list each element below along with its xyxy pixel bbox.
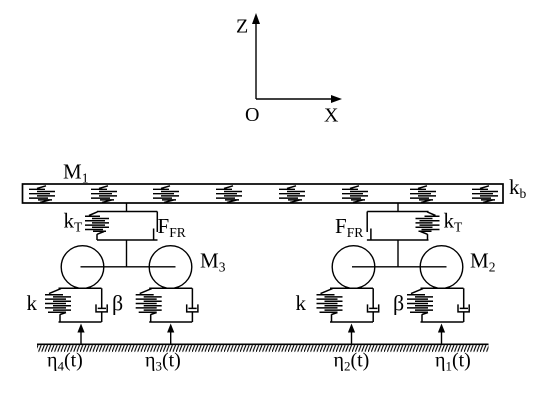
axle line [81, 266, 176, 268]
beam internal springs kb x8 [29, 186, 498, 203]
X axis arrowhead [331, 95, 342, 103]
primary spring k (w4) [45, 289, 71, 323]
secondary damper FFR cup [370, 229, 372, 241]
svg-text:k: k [296, 291, 307, 315]
svg-text:Z: Z [236, 16, 248, 38]
coordinate axes [256, 20, 335, 99]
beam M1 (rail/bridge body) [23, 184, 504, 203]
secondary suspension frame (top+bottom bars) [367, 212, 429, 241]
wheel 3 [149, 246, 192, 289]
svg-text:η3(t): η3(t) [145, 350, 181, 374]
svg-text:kT: kT [444, 209, 464, 235]
svg-text:kT: kT [64, 209, 84, 235]
excitation arrow 2 [351, 331, 353, 345]
wheel 4 [61, 246, 104, 289]
secondary spring kT [416, 212, 440, 240]
axle line right [352, 266, 447, 268]
secondary spring kT [85, 212, 109, 240]
X axis line [256, 98, 335, 100]
svg-text:η1(t): η1(t) [435, 350, 471, 374]
Z axis arrowhead [252, 13, 260, 24]
primary suspension box w4 [59, 288, 108, 322]
svg-text:β: β [112, 291, 123, 316]
primary spring k (w3) [136, 289, 162, 323]
wheel 1 [420, 246, 463, 289]
excitation arrow 4 [80, 331, 82, 345]
svg-text:M2: M2 [470, 249, 495, 275]
svg-text:FFR: FFR [158, 214, 186, 240]
svg-text:k: k [27, 291, 38, 315]
svg-text:X: X [324, 105, 339, 127]
ground line [37, 343, 489, 345]
wire suspension to axle [397, 240, 399, 267]
wire suspension to axle [126, 240, 128, 267]
wire beam to secondary suspension [397, 203, 399, 212]
svg-text:kb: kb [509, 175, 527, 201]
primary suspension box w3 [149, 288, 198, 322]
wire beam to secondary suspension [126, 203, 128, 212]
svg-text:η2(t): η2(t) [334, 350, 370, 374]
svg-text:η4(t): η4(t) [47, 350, 83, 374]
wheel 2 [332, 246, 375, 289]
svg-text:β: β [393, 291, 404, 316]
secondary suspension frame (top+bottom bars) [97, 212, 158, 241]
ground hatching [37, 345, 489, 352]
primary suspension box w1 [421, 288, 470, 322]
excitation arrow 3 [170, 331, 172, 345]
secondary damper FFR rod [366, 212, 368, 233]
primary spring k (w1) [407, 289, 433, 323]
svg-text:M1: M1 [63, 160, 88, 186]
excitation arrow 1 [441, 331, 443, 345]
primary suspension box w2 [330, 288, 379, 322]
svg-text:M3: M3 [200, 249, 226, 275]
svg-text:FFR: FFR [335, 214, 363, 240]
secondary damper FFR cup [153, 229, 155, 241]
primary spring k (w2) [317, 289, 343, 323]
secondary damper FFR rod [156, 212, 158, 233]
Z axis line [255, 20, 257, 99]
svg-text:O: O [245, 104, 259, 126]
